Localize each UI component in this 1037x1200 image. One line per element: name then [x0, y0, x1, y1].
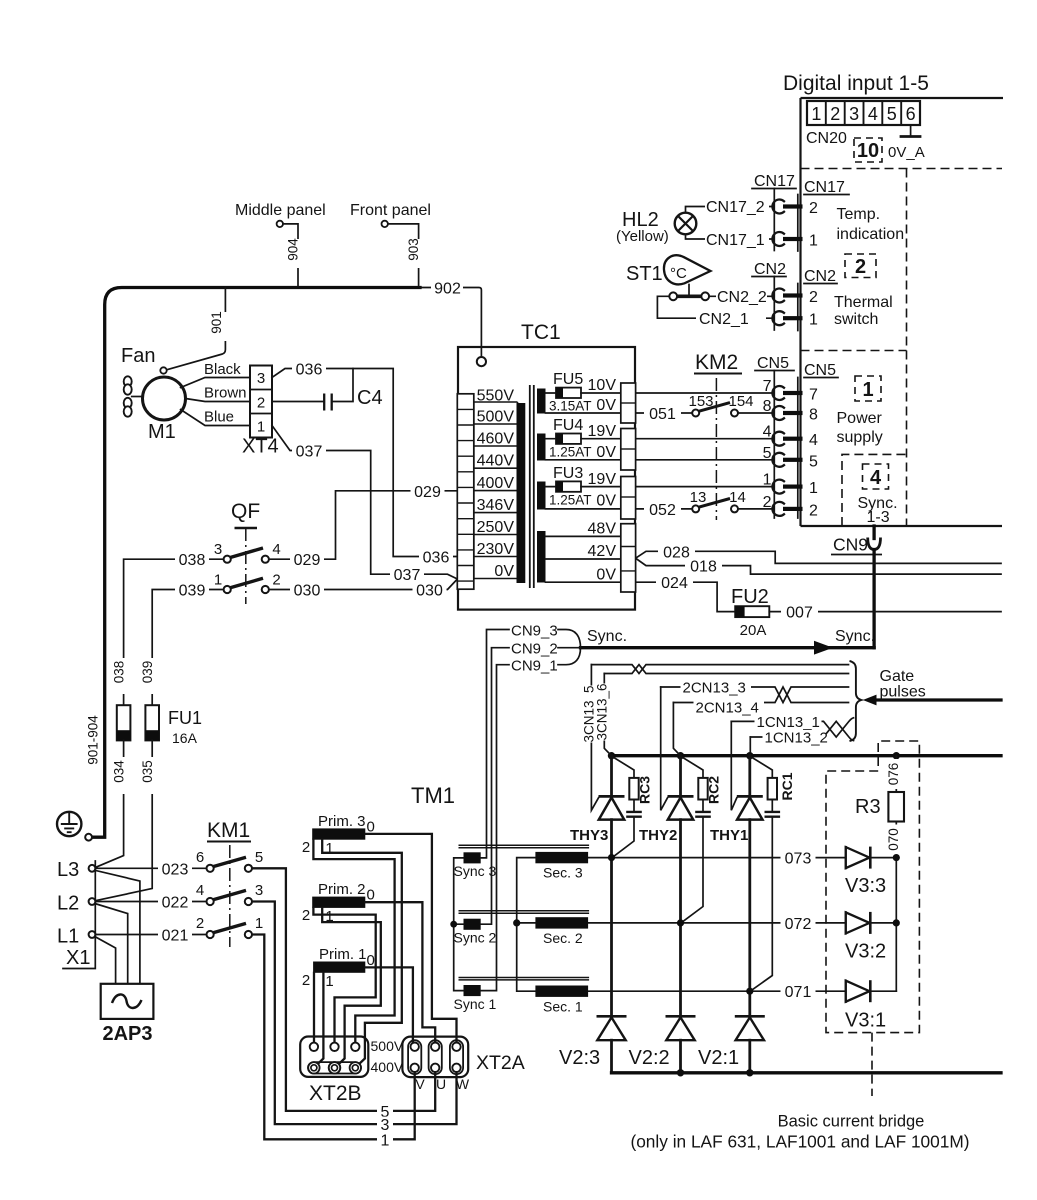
tap label 400V [477, 475, 515, 492]
svg-text:Power: Power [837, 410, 883, 427]
lamp HL2 [616, 209, 696, 245]
svg-text:RC1: RC1 [779, 772, 795, 800]
svg-text:1: 1 [811, 104, 821, 124]
label CN9_2 [511, 641, 558, 658]
wire pair 3CN13 with twist [591, 665, 848, 674]
contact KM2 13-14 [690, 489, 773, 512]
svg-text:1: 1 [809, 312, 818, 329]
fuse FU4 1.25AT [549, 417, 621, 460]
block marker 10 [854, 138, 882, 162]
svg-text:Thermal: Thermal [834, 294, 893, 311]
svg-text:4: 4 [809, 432, 818, 449]
sec label 19V [588, 423, 617, 440]
block marker 2 [845, 254, 876, 278]
sec label 10V [588, 377, 617, 394]
svg-text:2: 2 [272, 571, 280, 588]
CN2 pin 2 [772, 289, 818, 307]
switch ST1 contact [669, 292, 709, 300]
svg-text:Sec. 1: Sec. 1 [543, 999, 583, 1015]
svg-text:L1: L1 [57, 926, 79, 948]
svg-text:Sec. 3: Sec. 3 [543, 865, 583, 881]
svg-text:902: 902 [434, 281, 461, 298]
svg-text:460V: 460V [477, 431, 515, 448]
wire 029 [269, 483, 457, 569]
wire 038 [112, 552, 224, 706]
wire CN17_1 [686, 231, 773, 249]
wire sec star [513, 858, 535, 992]
svg-text:2: 2 [302, 972, 310, 989]
svg-text:034: 034 [112, 760, 127, 783]
contact KM2 153-154 [688, 393, 772, 417]
svg-text:6: 6 [196, 849, 204, 866]
terminal block XT2B [300, 1037, 368, 1077]
svg-text:052: 052 [649, 502, 676, 519]
svg-text:R3: R3 [855, 796, 881, 818]
tap label 500V [477, 409, 515, 426]
svg-text:C4: C4 [357, 387, 383, 409]
svg-text:024: 024 [661, 575, 688, 592]
contact QF 3-4 [214, 541, 281, 563]
svg-text:070: 070 [886, 828, 901, 851]
sync collect brace [558, 628, 627, 665]
winding Sec. 2 [535, 917, 588, 946]
svg-text:0V_A: 0V_A [888, 144, 925, 161]
svg-text:4: 4 [196, 882, 204, 899]
terminal Front panel 903 [350, 202, 431, 286]
label 400V row [371, 1059, 404, 1075]
wire 051 row [636, 406, 692, 424]
wire L2 to 2AP3 [95, 904, 128, 984]
svg-text:FU5: FU5 [553, 371, 583, 388]
winding Prim. 2 [302, 881, 375, 925]
CN20 pin 2 [830, 104, 840, 124]
sec label 0V [596, 493, 616, 510]
svg-text:1: 1 [325, 840, 333, 857]
label 2CN13_4 [694, 699, 765, 716]
board dashed partition temp/power [801, 350, 907, 352]
svg-text:250V: 250V [477, 519, 515, 536]
diode V2:3 [559, 1016, 627, 1073]
svg-text:Brown: Brown [204, 385, 247, 402]
svg-text:1: 1 [809, 480, 818, 497]
svg-text:022: 022 [162, 895, 189, 912]
wire CN9_2 riser [481, 648, 509, 925]
svg-text:Prim. 2: Prim. 2 [318, 881, 366, 898]
wire 024 [636, 575, 736, 612]
CN5 pin 4 [763, 424, 818, 450]
wire Prim3 tap 1 [322, 840, 402, 1065]
sec label 0V [596, 444, 616, 461]
sec label 42V [588, 543, 617, 560]
svg-text:1-3: 1-3 [867, 509, 890, 526]
wire THY3 gate 3CN13_5 [591, 665, 598, 811]
svg-text:7: 7 [809, 387, 818, 404]
label W [456, 1076, 470, 1092]
connector CN5 rail [755, 355, 838, 518]
svg-text:(only in LAF 631, LAF1001 and: (only in LAF 631, LAF1001 and LAF 1001M) [630, 1132, 969, 1152]
wire Prim2 tap 1 [322, 908, 381, 1065]
wire Black M1 to XT4-3 [181, 361, 250, 388]
svg-text:FU3: FU3 [553, 465, 583, 482]
TC1 secondary winding 10V [537, 389, 621, 414]
wire L3 to 2AP3 [95, 870, 140, 984]
terminal Middle panel 904 [235, 202, 326, 286]
svg-text:48V: 48V [588, 521, 617, 538]
CN20 pin 3 [849, 104, 859, 124]
svg-text:440V: 440V [477, 453, 515, 470]
tap label 0V [494, 563, 514, 580]
label 3CN13_5 [582, 685, 598, 742]
CN5 pin 2 [763, 494, 818, 520]
svg-text:035: 035 [140, 760, 155, 783]
svg-text:19V: 19V [588, 471, 617, 488]
wire 030 [269, 579, 457, 600]
svg-text:CN5: CN5 [757, 355, 789, 372]
label 500V row [371, 1038, 404, 1054]
wire CN9 drop [872, 550, 875, 648]
svg-text:Middle panel: Middle panel [235, 202, 326, 219]
svg-text:20A: 20A [740, 622, 767, 639]
label Basic current bridge [630, 1113, 969, 1152]
svg-text:8: 8 [809, 407, 818, 424]
wire 19V to pin1 [636, 486, 773, 488]
svg-text:Sec. 2: Sec. 2 [543, 930, 583, 946]
svg-text:400V: 400V [477, 475, 515, 492]
svg-text:M1: M1 [148, 421, 176, 443]
fuse FU1 16A right [145, 705, 202, 746]
wire Blue M1 to XT4-1 [181, 408, 250, 426]
wire pair 2CN13 with twist [661, 687, 849, 703]
connector CN20 [807, 101, 920, 125]
wire Prim2 tap 2 [313, 908, 375, 1043]
svg-text:V2:3: V2:3 [559, 1047, 600, 1069]
svg-text:1: 1 [862, 379, 873, 401]
label 1CN13_1 [755, 714, 822, 731]
wire THY2 cathode 2CN13_4 [673, 703, 679, 756]
svg-text:4: 4 [272, 541, 280, 558]
svg-text:CN9_2: CN9_2 [511, 641, 558, 658]
svg-text:036: 036 [423, 550, 450, 567]
TC1 core [530, 385, 534, 588]
wire 073 row [588, 850, 846, 868]
svg-text:073: 073 [785, 851, 812, 868]
diode V3:2 [845, 912, 896, 963]
wire line 3 [252, 902, 456, 1135]
snubber RC3 [613, 757, 653, 857]
svg-text:500V: 500V [371, 1038, 404, 1054]
label U [436, 1076, 446, 1092]
svg-text:2AP3: 2AP3 [102, 1023, 152, 1045]
label XT2B [309, 1082, 362, 1105]
TM1 core phase 1 [459, 978, 590, 980]
svg-text:indication: indication [837, 226, 905, 243]
diode V3:1 [845, 980, 896, 1031]
svg-text:029: 029 [294, 552, 321, 569]
wire Sync to CN9 [581, 628, 876, 655]
svg-text:V2:1: V2:1 [698, 1047, 739, 1069]
svg-text:°C: °C [670, 265, 687, 282]
svg-text:051: 051 [649, 406, 676, 423]
svg-text:1: 1 [325, 973, 333, 990]
svg-text:030: 030 [416, 583, 443, 600]
svg-text:4: 4 [870, 467, 882, 489]
svg-text:19V: 19V [588, 423, 617, 440]
contactor KM2 [694, 351, 742, 520]
svg-text:5: 5 [809, 453, 818, 470]
wire PE bus 901-904 [92, 288, 420, 838]
contact QF 1-2 [214, 571, 281, 593]
tap label 346V [477, 497, 515, 514]
wire 0V to pin5 [636, 459, 773, 461]
svg-text:FU4: FU4 [553, 417, 583, 434]
svg-text:13: 13 [690, 489, 707, 506]
board dashed partition vertical [906, 169, 908, 527]
svg-text:THY1: THY1 [710, 827, 748, 844]
svg-text:V3:3: V3:3 [845, 875, 886, 897]
svg-text:2: 2 [302, 839, 310, 856]
svg-text:V3:2: V3:2 [845, 941, 886, 963]
label XT2A [476, 1052, 525, 1074]
svg-text:V: V [415, 1076, 425, 1092]
svg-text:CN17: CN17 [754, 173, 795, 190]
svg-text:1CN13_2: 1CN13_2 [765, 729, 828, 746]
wire 035 [95, 740, 159, 900]
svg-text:901: 901 [209, 311, 224, 334]
capacitor C4 [272, 369, 383, 411]
winding Prim. 1 [302, 946, 375, 990]
svg-text:TM1: TM1 [411, 783, 455, 808]
svg-text:1.25AT: 1.25AT [549, 493, 592, 508]
svg-text:0V: 0V [596, 493, 616, 510]
svg-text:3CN13_6: 3CN13_6 [595, 683, 610, 740]
svg-text:pulses: pulses [880, 684, 926, 701]
svg-text:1: 1 [257, 419, 265, 436]
svg-text:2: 2 [830, 104, 840, 124]
snubber RC1 [751, 757, 795, 990]
CN5 pin 7 [763, 378, 818, 404]
svg-text:038: 038 [112, 661, 127, 684]
svg-text:THY3: THY3 [570, 827, 608, 844]
wire 037 [272, 426, 457, 585]
svg-text:2: 2 [809, 200, 818, 217]
svg-text:CN17_1: CN17_1 [706, 232, 765, 249]
tap label 230V [477, 541, 515, 558]
earth symbol PE [57, 812, 92, 841]
svg-text:Prim. 1: Prim. 1 [319, 946, 367, 963]
thyristor THY2 [639, 756, 694, 1016]
contact KM1 2-1 [196, 915, 263, 938]
CN2 pin 1 [772, 311, 818, 328]
svg-text:550V: 550V [477, 388, 515, 405]
wire 021 [95, 927, 206, 945]
XT2B link bars 400V [308, 1062, 361, 1073]
svg-text:2: 2 [196, 915, 204, 932]
TC1 right terminals group1 [621, 383, 636, 423]
svg-text:KM1: KM1 [207, 819, 250, 842]
svg-text:6: 6 [906, 104, 916, 124]
wire 052 row [636, 502, 692, 520]
svg-text:CN2: CN2 [754, 261, 786, 278]
svg-text:903: 903 [406, 238, 421, 261]
wire 007 [769, 604, 1001, 622]
svg-text:029: 029 [414, 484, 441, 501]
CN20 pin 6 [906, 104, 916, 124]
svg-text:3.15AT: 3.15AT [549, 399, 592, 414]
wire CN9_1 riser [481, 665, 509, 991]
label Sync. 1-3 [858, 495, 898, 526]
wire 036 [272, 361, 457, 567]
svg-text:0V: 0V [596, 397, 616, 414]
ground 0V_A [888, 125, 925, 161]
connector CN2 rail [752, 261, 837, 331]
label Temp. indication [837, 206, 905, 243]
svg-text:10V: 10V [588, 377, 617, 394]
sec label 19V [588, 471, 617, 488]
snubber RC2 [682, 757, 722, 922]
svg-text:1: 1 [214, 571, 222, 588]
terminal block XT2A [402, 1037, 468, 1078]
svg-text:RC2: RC2 [706, 776, 722, 804]
connector CN9 [831, 526, 882, 555]
svg-text:X1: X1 [66, 947, 90, 969]
svg-text:2: 2 [809, 502, 818, 519]
breaker QF [231, 500, 260, 604]
label Fan [121, 345, 155, 367]
wire Prim2 tap 0 [365, 902, 435, 1042]
CN20 pin 5 [887, 104, 897, 124]
svg-text:021: 021 [162, 928, 189, 945]
svg-text:QF: QF [231, 500, 260, 523]
TC1 right terminals group2 [621, 429, 636, 471]
svg-text:V2:2: V2:2 [629, 1047, 670, 1069]
wire 023 [95, 861, 206, 879]
wire THY3 cathode 3CN13_6 [604, 674, 611, 756]
svg-text:ST1: ST1 [626, 263, 663, 285]
tap label 460V [477, 431, 515, 448]
svg-text:(Yellow): (Yellow) [616, 228, 669, 245]
svg-text:153: 153 [688, 393, 713, 410]
svg-text:5: 5 [255, 849, 263, 866]
label Power supply [837, 410, 883, 446]
CN5 pin 1 [763, 472, 818, 498]
svg-text:039: 039 [179, 583, 206, 600]
winding Sec. 3 [535, 852, 588, 881]
wire THY1 gate 1CN13_1 [731, 721, 737, 810]
wire 072 row [588, 915, 846, 933]
filter 2AP3 [101, 984, 154, 1045]
svg-text:CN20: CN20 [806, 130, 847, 147]
svg-text:CN17: CN17 [804, 179, 845, 196]
motor M1 [143, 367, 186, 443]
svg-text:0V: 0V [596, 444, 616, 461]
svg-text:Gate: Gate [880, 668, 915, 685]
block marker 4 [863, 464, 889, 489]
svg-text:L2: L2 [57, 893, 79, 915]
terminal L2 [57, 893, 95, 915]
svg-text:Basic current bridge: Basic current bridge [778, 1113, 925, 1131]
svg-text:2: 2 [302, 907, 310, 924]
svg-text:007: 007 [786, 605, 813, 622]
wire THY2 gate 2CN13_3 [661, 687, 668, 810]
svg-text:Prim. 3: Prim. 3 [318, 813, 366, 830]
svg-text:XT2B: XT2B [309, 1082, 362, 1105]
terminal block X1 [63, 861, 95, 969]
svg-text:2CN13_3: 2CN13_3 [683, 679, 746, 696]
sec label 0V [596, 397, 616, 414]
TC1 secondary winding 19V a [537, 434, 621, 461]
sec label 48V [588, 521, 617, 538]
TC1 secondary winding 19V b [537, 482, 621, 510]
svg-text:3: 3 [849, 104, 859, 124]
svg-text:901-904: 901-904 [86, 715, 101, 765]
svg-text:Temp.: Temp. [837, 206, 881, 223]
wire CN2_1 [657, 296, 772, 328]
label 3CN13_6 [595, 683, 611, 740]
svg-text:CN9_3: CN9_3 [511, 623, 558, 640]
svg-text:10: 10 [857, 140, 879, 162]
wire CN2_2 [709, 289, 772, 307]
diode V2:2 [629, 1016, 696, 1073]
svg-text:018: 018 [690, 559, 717, 576]
fuse FU5 3.15AT [549, 371, 621, 414]
TC1 primary tap boxes [474, 402, 518, 579]
fuse FU2 20A [731, 586, 769, 639]
CN5 pin 8 [763, 398, 818, 424]
svg-text:Sync.: Sync. [835, 628, 875, 645]
svg-text:switch: switch [834, 311, 878, 328]
svg-text:14: 14 [729, 489, 746, 506]
wire 028 [636, 544, 1001, 564]
label 2CN13_3 [681, 679, 752, 696]
contact KM1 6-5 [196, 849, 263, 872]
svg-text:3: 3 [257, 370, 265, 387]
terminal L3 [57, 859, 95, 881]
svg-text:2: 2 [855, 256, 866, 278]
svg-text:16A: 16A [172, 730, 198, 746]
svg-text:3: 3 [255, 882, 263, 899]
dc bus bottom [612, 1069, 1002, 1076]
TC1 secondary winding 48V [537, 531, 621, 583]
svg-text:CN2: CN2 [804, 268, 836, 285]
svg-text:072: 072 [785, 916, 812, 933]
wire line 1 [252, 935, 414, 1150]
CN5 pin 5 [763, 445, 818, 471]
svg-text:1: 1 [809, 233, 818, 250]
wire line 5 [252, 868, 435, 1121]
svg-text:1: 1 [255, 915, 263, 932]
wire 034 [95, 740, 131, 867]
svg-text:V3:1: V3:1 [845, 1010, 886, 1032]
svg-text:Blue: Blue [204, 409, 234, 426]
TC1 left terminal strip [457, 394, 474, 589]
label CN9_1 [511, 658, 558, 675]
svg-text:1CN13_1: 1CN13_1 [757, 714, 820, 731]
svg-text:Digital input 1-5: Digital input 1-5 [783, 72, 929, 95]
svg-text:Black: Black [204, 361, 241, 378]
svg-text:071: 071 [785, 984, 812, 1001]
tap label 440V [477, 453, 515, 470]
tap label 550V [477, 388, 515, 405]
contactor KM1 [207, 819, 251, 947]
wire 022 [95, 894, 206, 912]
label CN20 [806, 130, 847, 147]
thermal sensor ST1 [626, 255, 711, 294]
thyristor THY3 [570, 756, 625, 1016]
TC1 primary winding bar [517, 403, 526, 583]
contact KM1 4-3 [196, 882, 263, 905]
svg-text:RC3: RC3 [637, 776, 653, 804]
svg-text:Sync.: Sync. [587, 628, 627, 645]
